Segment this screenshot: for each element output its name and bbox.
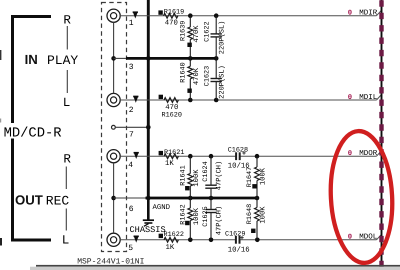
svg-text:0: 0 <box>348 234 352 242</box>
signal arrow row4 <box>134 236 139 243</box>
signal arrow row1 <box>133 12 138 19</box>
svg-text:IN: IN <box>25 52 38 67</box>
node row1/C1622 <box>214 13 219 18</box>
wire right bus (to connector) <box>381 0 383 270</box>
left bracket (MD/CD-R group) <box>11 17 51 241</box>
pin 7 terminal <box>112 125 116 129</box>
wire MDOL row <box>120 239 235 241</box>
svg-text:R1621: R1621 <box>164 149 184 157</box>
svg-text:C1629: C1629 <box>225 230 245 238</box>
shield wire jack4-jack5 <box>113 163 115 233</box>
capacitor C1629 <box>235 236 237 244</box>
svg-text:AGND: AGND <box>153 204 171 212</box>
svg-text:0: 0 <box>348 10 352 18</box>
svg-text:R1648: R1648 <box>246 204 254 224</box>
resistor R1639 <box>189 16 191 27</box>
wire R-REC divider <box>65 167 67 190</box>
node row2/C1623 <box>214 98 219 103</box>
svg-text:100K: 100K <box>260 167 268 185</box>
jack pin 2 (IN L) <box>107 93 120 106</box>
resistor R1620 <box>159 95 163 99</box>
right bus pad marks <box>379 0 383 267</box>
wire PLAY-L divider <box>66 70 68 93</box>
svg-text:REC: REC <box>46 193 70 208</box>
wire MDOR row <box>120 155 235 157</box>
wire pin6 AGND row <box>114 197 147 199</box>
wire MDIR row <box>120 15 376 17</box>
node row4/R1642 <box>188 238 193 243</box>
node AGND row / R1641-R1642 <box>188 196 193 201</box>
wire pin3 ground row <box>114 57 127 59</box>
wire MDOL bus entry <box>377 234 382 240</box>
svg-text:MDOR: MDOR <box>359 149 378 158</box>
svg-text:47P(CH): 47P(CH) <box>214 161 223 190</box>
wire MDIL row <box>120 99 376 101</box>
node row4/R1648 <box>255 238 260 243</box>
svg-text:1K: 1K <box>165 160 174 168</box>
resistor R1640 <box>189 58 191 66</box>
resistor R1621 <box>159 151 163 155</box>
svg-text:R1639: R1639 <box>180 21 188 41</box>
resistor R1641 <box>189 156 191 173</box>
resistor R1619 <box>158 10 162 14</box>
svg-text:0: 0 <box>348 94 352 102</box>
node shield top <box>111 56 116 61</box>
svg-text:470K: 470K <box>193 67 201 85</box>
wire AGND vertical bus <box>147 0 150 198</box>
wire REC-L divider <box>65 209 67 231</box>
capacitor C1622 <box>215 16 217 34</box>
capacitor C1625 <box>210 198 212 210</box>
svg-text:3: 3 <box>129 63 134 72</box>
signal arrow row3 <box>134 152 139 159</box>
svg-text:R1619: R1619 <box>164 9 184 17</box>
ground CHASSIS symbol <box>147 198 150 220</box>
svg-text:MDIL: MDIL <box>359 94 378 102</box>
svg-text:R: R <box>63 152 71 166</box>
svg-text:C1622: C1622 <box>203 21 211 41</box>
wire MDIL bus entry <box>377 95 382 101</box>
resistor R1622 <box>159 234 163 238</box>
resistor R1648 <box>256 198 258 208</box>
svg-text:R1642: R1642 <box>180 204 188 224</box>
resistor R1642 <box>189 198 191 208</box>
svg-text:100K: 100K <box>260 206 268 224</box>
node row2/R1640 <box>188 98 193 103</box>
svg-text:5: 5 <box>128 244 133 253</box>
svg-text:1: 1 <box>129 19 134 28</box>
svg-text:10/16: 10/16 <box>228 245 250 254</box>
signal arrow row2 <box>133 96 138 103</box>
svg-text:470: 470 <box>165 20 178 28</box>
node row3/C1624 <box>209 154 214 159</box>
svg-text:0: 0 <box>348 150 352 158</box>
shield wire jack1-jack2 <box>113 22 115 93</box>
jack pin 1 (IN R) <box>107 9 120 22</box>
svg-text:6: 6 <box>129 205 134 214</box>
svg-text:R1620: R1620 <box>162 111 182 119</box>
svg-text:470K: 470K <box>193 25 201 43</box>
annotation red ellipse <box>327 129 395 264</box>
svg-text:7: 7 <box>129 131 134 140</box>
svg-text:R1641: R1641 <box>180 165 188 185</box>
jack pin 5 (OUT L) <box>107 233 120 246</box>
svg-text:100K: 100K <box>193 207 201 225</box>
svg-text:C1628: C1628 <box>228 147 248 155</box>
node AGND row / bus <box>146 196 151 201</box>
svg-text:C1623: C1623 <box>203 66 211 86</box>
svg-text:C1624: C1624 <box>202 161 210 181</box>
svg-text:4: 4 <box>128 161 133 170</box>
svg-text:220P(SL): 220P(SL) <box>218 65 227 99</box>
svg-text:L: L <box>62 233 70 247</box>
connector CN (dashed box) <box>102 3 127 252</box>
svg-text:OUT: OUT <box>15 192 43 207</box>
svg-text:R1647: R1647 <box>246 167 254 187</box>
wire MDOR bus entry <box>377 151 382 157</box>
svg-text:100K: 100K <box>193 169 201 187</box>
capacitor C1623 <box>215 58 217 78</box>
svg-text:MDIR: MDIR <box>359 10 378 18</box>
node row4/C1625 <box>209 238 214 243</box>
svg-text:220P(SL): 220P(SL) <box>218 21 227 55</box>
wire pin7 to AGND bus <box>115 126 148 128</box>
capacitor C1624 <box>210 156 212 185</box>
node gnd row / bus <box>146 56 151 61</box>
node row1/R1639 <box>188 13 193 18</box>
svg-text:47P(CH): 47P(CH) <box>214 206 223 235</box>
svg-text:1K: 1K <box>166 244 175 252</box>
svg-text:L: L <box>63 96 71 110</box>
svg-text:R1640: R1640 <box>180 62 188 82</box>
svg-text:R: R <box>63 14 71 28</box>
capacitor C1628 <box>235 152 237 160</box>
svg-text:C1625: C1625 <box>202 206 210 226</box>
node gnd row / R1639-R1640 <box>188 56 193 61</box>
svg-text:CHASSIS: CHASSIS <box>130 225 166 235</box>
wire R-PLAY divider <box>66 26 68 50</box>
wire MDIR bus entry <box>377 10 382 16</box>
svg-text:R1622: R1622 <box>164 231 184 239</box>
svg-text:PLAY: PLAY <box>47 53 78 68</box>
svg-text:2: 2 <box>129 106 134 115</box>
svg-text:MDOL: MDOL <box>359 233 378 242</box>
page edge line <box>36 265 400 267</box>
node shield bottom <box>111 196 116 201</box>
svg-text:MD/CD-R: MD/CD-R <box>4 126 62 141</box>
node row3/R1641 <box>188 154 193 159</box>
node AGND row / C1624-C1625 <box>209 196 214 201</box>
edge tick marks <box>0 50 1 60</box>
node pin7-bus junction <box>146 125 151 130</box>
node row3/R1647 <box>255 154 260 159</box>
resistor R1647 <box>256 156 258 167</box>
node gnd row / C1622-C1623 <box>214 56 219 61</box>
node AGND row / R1647-R1648 <box>255 196 260 201</box>
jack pin 4 (OUT R) <box>107 150 120 163</box>
